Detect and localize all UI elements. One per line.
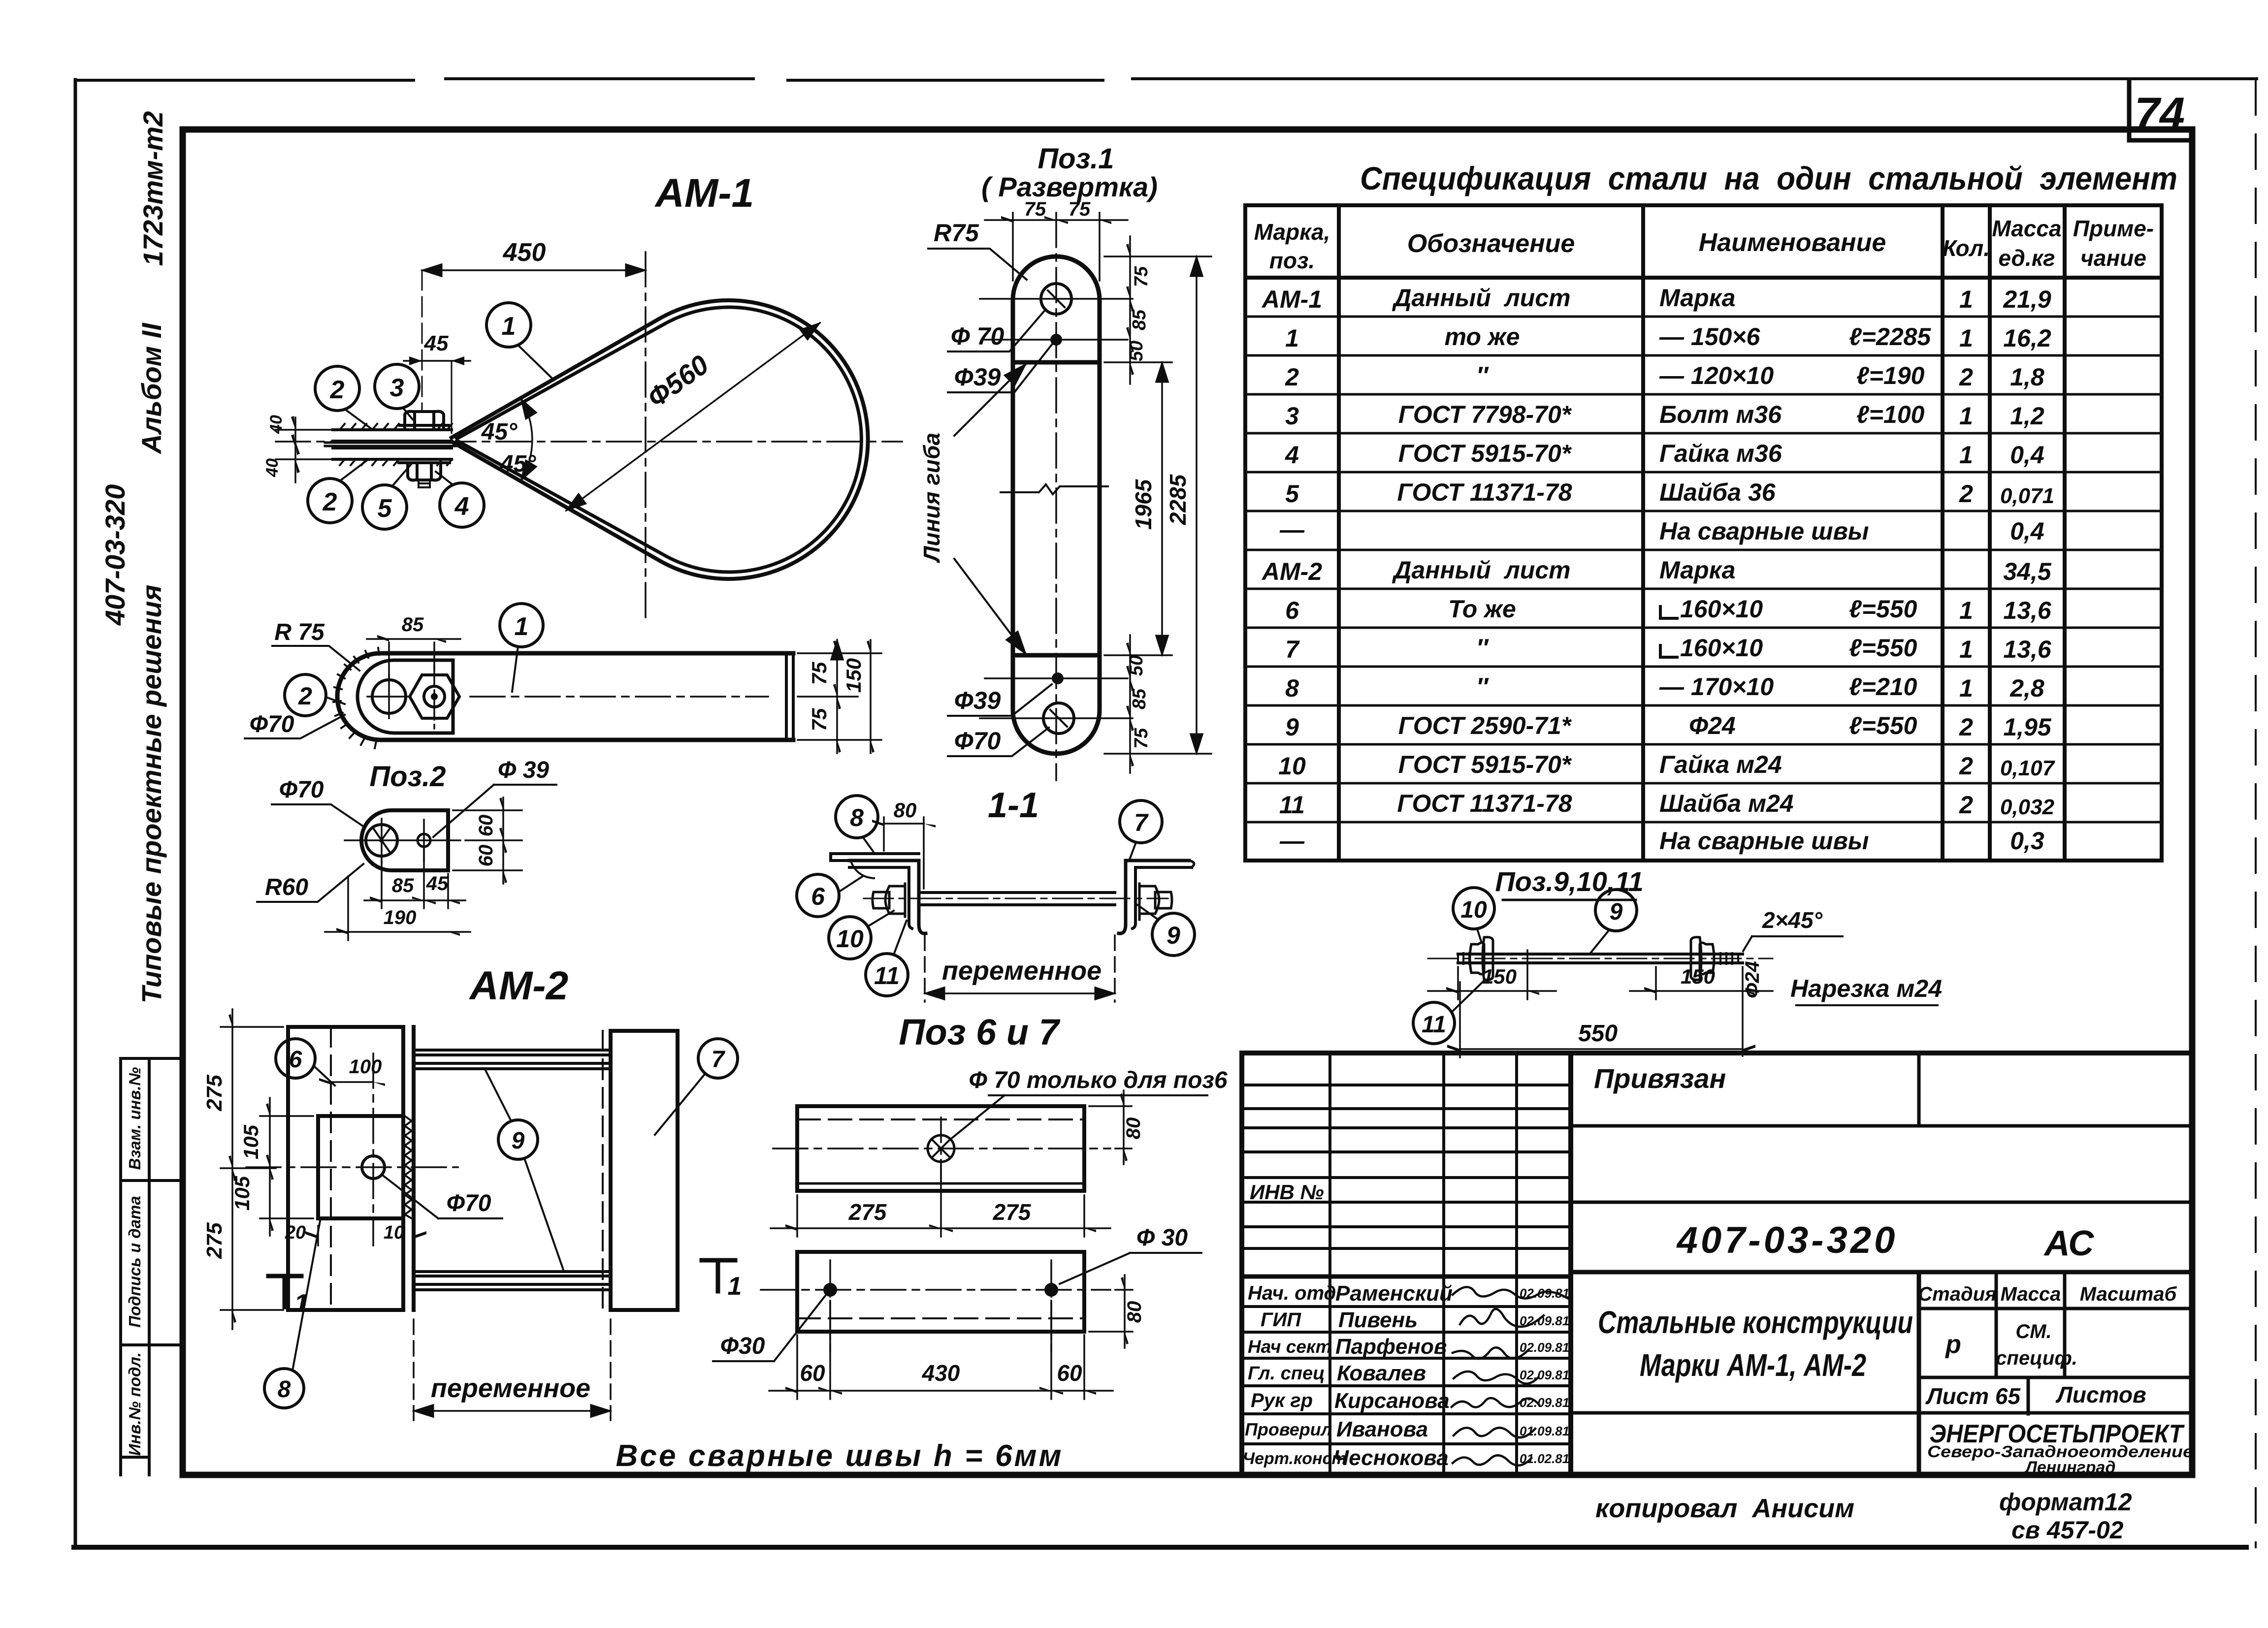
svg-text:20: 20 bbox=[285, 1222, 306, 1243]
sec11 balloon 6 bbox=[797, 874, 863, 917]
svg-text:R60: R60 bbox=[265, 874, 308, 900]
svg-text:7: 7 bbox=[1134, 809, 1149, 836]
poz1 vertical centerline bbox=[1055, 213, 1057, 780]
svg-text:02.09.81: 02.09.81 bbox=[1520, 1368, 1569, 1382]
svg-text:85: 85 bbox=[1129, 688, 1150, 709]
svg-text:Ф 70: Ф 70 bbox=[951, 322, 1004, 350]
AM-1 clamped strip ends bbox=[325, 443, 457, 446]
svg-text:″: ″ bbox=[1476, 362, 1489, 389]
svg-text:переменное: переменное bbox=[942, 956, 1102, 986]
title block signature table names bbox=[1333, 1281, 1453, 1470]
plan2 hole F30 right filled bbox=[1044, 1260, 1058, 1351]
svg-text:Лист 65: Лист 65 bbox=[1925, 1383, 2021, 1409]
AM-1 dim 40 lower bbox=[263, 434, 300, 478]
svg-text:6: 6 bbox=[289, 1047, 302, 1073]
svg-text:Приме-: Приме- bbox=[2073, 216, 2154, 241]
angle profile glyph row6 bbox=[1660, 607, 1677, 618]
poz2 weld pocket rectangle bbox=[357, 660, 453, 733]
title block signature table roles bbox=[1243, 1282, 1347, 1468]
poz2 welded nut hexagon bbox=[410, 675, 459, 718]
svg-text:1: 1 bbox=[728, 1272, 742, 1301]
title block left sub-table horizontals bbox=[1242, 1085, 1571, 1248]
plan1 dim 80 right bbox=[1089, 1090, 1144, 1164]
bracket dim 190 bbox=[325, 876, 470, 940]
bracket hole F39 bbox=[418, 820, 430, 862]
svg-text:Ф70: Ф70 bbox=[447, 1190, 491, 1216]
svg-text:150: 150 bbox=[1482, 965, 1517, 988]
AM-2 balloon 7 bbox=[655, 1039, 738, 1135]
svg-text:Взам. инв.№: Взам. инв.№ bbox=[126, 1067, 144, 1170]
poz1 label R75 bbox=[928, 219, 1027, 280]
svg-text:275: 275 bbox=[993, 1199, 1032, 1225]
AM-1 balloon 1 top bbox=[486, 303, 554, 380]
svg-text:Масштаб: Масштаб bbox=[2080, 1283, 2177, 1305]
svg-text:—: — bbox=[1279, 827, 1305, 855]
svg-text:Гайка м24: Гайка м24 bbox=[1659, 751, 1782, 778]
AM-2 dim 100 bbox=[319, 1056, 385, 1086]
svg-text:160×10: 160×10 bbox=[1680, 595, 1763, 623]
svg-text:11: 11 bbox=[874, 962, 900, 990]
AM-1 vertical centerline bbox=[645, 252, 647, 621]
svg-text:Ф30: Ф30 bbox=[720, 1333, 765, 1359]
svg-text:Стадия: Стадия bbox=[1918, 1283, 1996, 1305]
outer sheet border right bbox=[2255, 80, 2257, 1547]
svg-text:1723тм-т2: 1723тм-т2 bbox=[137, 111, 168, 266]
svg-text:Черт.конст: Черт.конст bbox=[1243, 1449, 1347, 1468]
left margin small table bbox=[121, 1058, 183, 1475]
svg-text:1: 1 bbox=[1959, 597, 1973, 624]
AM-2 top rails (angle edges) bbox=[414, 1050, 611, 1069]
AM-2 left plate hidden line bbox=[330, 1027, 332, 1310]
chamfer label 2x45 bbox=[1743, 907, 1843, 951]
svg-text:5: 5 bbox=[378, 494, 392, 523]
svg-text:Поз.9,10,11: Поз.9,10,11 bbox=[1495, 866, 1643, 897]
svg-text:85: 85 bbox=[392, 875, 414, 896]
svg-text:60: 60 bbox=[475, 815, 497, 837]
plan2 dims 60 430 60 bbox=[769, 1301, 1113, 1399]
poz1 label F70 bottom bbox=[948, 727, 1049, 756]
svg-text:СМ.: СМ. bbox=[2015, 1321, 2051, 1342]
sec11 balloon 7 bbox=[1120, 800, 1162, 860]
svg-text:1-1: 1-1 bbox=[988, 786, 1039, 825]
svg-text:275: 275 bbox=[848, 1199, 887, 1225]
AM-1 diameter 560 dimension diagonal bbox=[566, 323, 820, 511]
svg-text:160×10: 160×10 bbox=[1680, 634, 1763, 662]
svg-text:11: 11 bbox=[1422, 1012, 1446, 1038]
poz2 balloon 2 bbox=[285, 674, 345, 716]
svg-text:1: 1 bbox=[1959, 441, 1973, 469]
svg-text:Спецификация стали на один: Спецификация стали на один стальной элем… bbox=[1360, 160, 2177, 196]
bracket hole F70 bbox=[345, 819, 460, 862]
outer sheet border top bbox=[75, 79, 2257, 80]
title block signature dates bbox=[1520, 1286, 1569, 1466]
svg-text:Стальные конструкции: Стальные конструкции bbox=[1598, 1305, 1913, 1340]
svg-text:02.09.81: 02.09.81 bbox=[1520, 1340, 1569, 1355]
svg-text:Пивень: Пивень bbox=[1338, 1308, 1418, 1332]
svg-text:75: 75 bbox=[1024, 198, 1046, 220]
svg-text:ℓ=190: ℓ=190 bbox=[1856, 362, 1925, 389]
svg-text:16,2: 16,2 bbox=[2003, 324, 2051, 352]
svg-text:ℓ=550: ℓ=550 bbox=[1849, 634, 1917, 662]
AM-2 dim 275 275 left bbox=[202, 1009, 283, 1329]
svg-text:Болт м36: Болт м36 bbox=[1659, 401, 1782, 428]
svg-text:450: 450 bbox=[503, 238, 546, 267]
AM-1 45 deg angle arc bbox=[521, 399, 532, 480]
svg-text:Гл. спец: Гл. спец bbox=[1248, 1363, 1325, 1384]
svg-text:Инв.№ подл.: Инв.№ подл. bbox=[126, 1352, 144, 1456]
svg-text:Нач сект: Нач сект bbox=[1248, 1337, 1332, 1357]
svg-text:60: 60 bbox=[475, 845, 497, 867]
svg-text:8: 8 bbox=[1285, 674, 1299, 702]
bracket label F70 bbox=[272, 777, 364, 827]
svg-text:275: 275 bbox=[202, 1075, 227, 1112]
svg-text:Марка: Марка bbox=[1659, 284, 1735, 312]
angle profile glyph row7 bbox=[1660, 645, 1677, 657]
svg-text:Данный лист: Данный лист bbox=[1392, 556, 1570, 584]
svg-text:Парфенов: Парфенов bbox=[1335, 1335, 1447, 1359]
svg-text:( Развертка): ( Развертка) bbox=[981, 171, 1158, 202]
svg-text:ГИП: ГИП bbox=[1261, 1309, 1301, 1331]
svg-text:40: 40 bbox=[267, 415, 286, 434]
svg-text:105: 105 bbox=[230, 1176, 254, 1211]
AM-2 right block pos7 bbox=[611, 1031, 678, 1310]
AM-2 label F70 bbox=[383, 1176, 502, 1218]
svg-text:Привязан: Привязан bbox=[1594, 1063, 1726, 1094]
svg-text:формат12: формат12 bbox=[1999, 1488, 2132, 1516]
sec11 balloon 8 bbox=[836, 796, 878, 853]
svg-text:Ф70: Ф70 bbox=[279, 777, 324, 803]
inner drawing frame bbox=[183, 129, 2192, 1475]
svg-text:поз.: поз. bbox=[1269, 248, 1315, 273]
svg-text:02.09.81: 02.09.81 bbox=[1520, 1286, 1569, 1301]
svg-text:R75: R75 bbox=[934, 219, 979, 247]
svg-text:Проверил: Проверил bbox=[1245, 1419, 1332, 1439]
svg-text:Кирсанова: Кирсанова bbox=[1334, 1389, 1450, 1413]
plan2 label F30 lower left bbox=[713, 1296, 825, 1361]
AM-1 balloon 2 bottom bbox=[308, 459, 368, 523]
AM-2 dim 20 bbox=[285, 1222, 318, 1245]
svg-text:″: ″ bbox=[1476, 634, 1489, 662]
svg-text:34,5: 34,5 bbox=[2003, 558, 2052, 585]
svg-text:2: 2 bbox=[298, 682, 312, 710]
AM-2 balloon 6 bbox=[276, 1039, 335, 1085]
svg-text:Поз 6 и 7: Поз 6 и 7 bbox=[899, 1012, 1061, 1053]
svg-text:150: 150 bbox=[842, 658, 865, 693]
svg-text:1,2: 1,2 bbox=[2010, 402, 2044, 430]
svg-text:407-03-320: 407-03-320 bbox=[99, 484, 130, 626]
svg-text:80: 80 bbox=[1124, 1301, 1145, 1323]
svg-text:60: 60 bbox=[800, 1360, 825, 1386]
poz2 dim 85 top bbox=[367, 614, 460, 677]
sec11 left plate pos8 bbox=[831, 854, 919, 861]
svg-text:Наименование: Наименование bbox=[1699, 228, 1886, 257]
AM-2 dim 105 105 left bbox=[230, 1098, 313, 1236]
svg-text:специф.: специф. bbox=[1996, 1347, 2077, 1369]
svg-text:Ф 39: Ф 39 bbox=[498, 757, 550, 783]
svg-text:— 120×10: — 120×10 bbox=[1659, 362, 1774, 389]
specification table header texts bbox=[1254, 216, 2154, 273]
svg-text:9: 9 bbox=[1610, 899, 1623, 925]
svg-text:0,107: 0,107 bbox=[2000, 756, 2056, 780]
svg-text:75: 75 bbox=[1131, 728, 1152, 749]
poz1 bottom hole F39 filled bbox=[985, 672, 1128, 684]
poz2 balloon 1 bbox=[500, 604, 543, 692]
thread label M24 bbox=[1790, 975, 1942, 1005]
svg-text:Марка,: Марка, bbox=[1254, 219, 1330, 245]
svg-text:— 170×10: — 170×10 bbox=[1659, 673, 1774, 701]
plan1 label F70 only for poz6 bbox=[949, 1067, 1228, 1140]
svg-text:7: 7 bbox=[1285, 636, 1300, 663]
poz1 label F39 top bbox=[948, 345, 1052, 392]
plan2 hidden edge dashed bbox=[797, 1317, 1084, 1319]
svg-text:На сварные швы: На сварные швы bbox=[1659, 517, 1869, 545]
svg-text:2: 2 bbox=[1959, 752, 1973, 780]
sec11 balloon 11 bbox=[866, 921, 908, 996]
svg-text:9: 9 bbox=[1166, 922, 1180, 949]
svg-text:переменное: переменное bbox=[431, 1373, 590, 1403]
svg-text:копировал Анисим: копировал Анисим bbox=[1595, 1494, 1854, 1523]
svg-text:01.02.81: 01.02.81 bbox=[1520, 1451, 1569, 1466]
poz2 hole F70 bbox=[367, 675, 411, 718]
svg-text:85: 85 bbox=[402, 614, 424, 636]
sec11 balloon 9 bbox=[1137, 905, 1195, 956]
poz2 strip outline bbox=[337, 653, 793, 740]
svg-text:6: 6 bbox=[1285, 597, 1299, 624]
svg-text:ГОСТ 5915-70*: ГОСТ 5915-70* bbox=[1398, 440, 1572, 467]
outer sheet border left bbox=[74, 80, 77, 1547]
svg-text:4: 4 bbox=[454, 492, 469, 521]
svg-text:75: 75 bbox=[808, 662, 831, 685]
AM-1 dim 450 bbox=[422, 238, 646, 412]
svg-text:6: 6 bbox=[811, 883, 825, 910]
svg-text:ед.кг: ед.кг bbox=[1998, 245, 2055, 271]
svg-text:2: 2 bbox=[330, 376, 345, 404]
svg-text:Масса: Масса bbox=[2001, 1283, 2061, 1305]
poz2 nut vertical centerline bbox=[433, 666, 435, 729]
poz1 bottom hole F70 bbox=[980, 703, 1133, 734]
poz1 top dim 75 75 bbox=[985, 198, 1128, 281]
svg-text:Ф70: Ф70 bbox=[250, 711, 294, 737]
svg-text:75: 75 bbox=[808, 708, 831, 731]
svg-text:Ф24: Ф24 bbox=[1742, 961, 1763, 998]
svg-text:10: 10 bbox=[384, 1222, 404, 1243]
svg-text:275: 275 bbox=[202, 1222, 227, 1259]
svg-text:430: 430 bbox=[922, 1360, 960, 1386]
svg-text:2285: 2285 bbox=[1165, 474, 1191, 525]
bracket outline bbox=[361, 810, 448, 870]
poz2 strip right end double line bbox=[786, 653, 793, 740]
svg-text:1: 1 bbox=[1959, 636, 1973, 663]
outer sheet border bottom bbox=[74, 1545, 2246, 1550]
svg-text:Шайба м24: Шайба м24 bbox=[1659, 790, 1794, 817]
svg-text:ℓ=550: ℓ=550 bbox=[1849, 712, 1917, 739]
AM-1 bolt M36 head bbox=[400, 412, 449, 430]
svg-text:ℓ=550: ℓ=550 bbox=[1849, 595, 1917, 623]
svg-text:50: 50 bbox=[1126, 655, 1147, 676]
svg-text:АМ-2: АМ-2 bbox=[1261, 558, 1322, 585]
svg-text:80: 80 bbox=[894, 798, 917, 822]
svg-text:то же: то же bbox=[1445, 323, 1520, 351]
specification table column 1 entries bbox=[1261, 286, 1322, 855]
balloon 9 bbox=[1590, 890, 1637, 953]
svg-text:То же: То же bbox=[1448, 595, 1516, 623]
svg-text:10: 10 bbox=[836, 925, 864, 953]
svg-text:1: 1 bbox=[515, 612, 529, 641]
svg-text:01.09.81: 01.09.81 bbox=[1520, 1424, 1569, 1438]
svg-text:ГОСТ 5915-70*: ГОСТ 5915-70* bbox=[1398, 751, 1572, 778]
plan1 bend edge solid bbox=[797, 1182, 1084, 1185]
AM-1 balloon 2 top bbox=[315, 366, 373, 430]
svg-text:АМ-1: АМ-1 bbox=[654, 171, 754, 216]
svg-text:ℓ=100: ℓ=100 bbox=[1856, 401, 1925, 428]
title block left sub-table verticals bbox=[1330, 1053, 1517, 1475]
svg-text:Раменский: Раменский bbox=[1335, 1281, 1453, 1306]
svg-text:100: 100 bbox=[349, 1056, 382, 1078]
dim 550 bbox=[1447, 967, 1755, 1057]
AM-1 dim 40 upper bbox=[267, 415, 333, 482]
svg-text:Марка: Марка bbox=[1659, 556, 1735, 584]
svg-text:Поз.1: Поз.1 bbox=[1037, 143, 1114, 175]
svg-text:550: 550 bbox=[1578, 1021, 1618, 1047]
svg-text:Ф39: Ф39 bbox=[954, 363, 1001, 391]
rod left thread bbox=[1458, 953, 1469, 964]
rod right thread bbox=[1720, 953, 1738, 964]
specification table column 4 entries bbox=[1959, 286, 1973, 819]
svg-text:7: 7 bbox=[712, 1047, 726, 1073]
poz2 label R75 top bbox=[272, 619, 359, 670]
title block outline bbox=[1242, 1053, 2192, 1475]
right washer pos11 bbox=[1691, 937, 1701, 980]
poz1 strip outline bbox=[1013, 256, 1100, 754]
svg-text:4: 4 bbox=[1285, 441, 1299, 469]
poz1 bend line top bbox=[1013, 360, 1100, 365]
specification table column 3 entries bbox=[1659, 284, 1931, 855]
svg-text:2: 2 bbox=[323, 488, 337, 516]
svg-text:13,6: 13,6 bbox=[2003, 636, 2052, 663]
AM-1 loop strip outer contour bbox=[452, 300, 868, 579]
plan2 outline bbox=[797, 1252, 1084, 1332]
svg-text:Альбом II: Альбом II bbox=[136, 322, 167, 455]
AM-2 balloon 9 bbox=[485, 1069, 564, 1271]
AM-1 lower clamp plate pos2 bbox=[333, 448, 452, 465]
right nut pos10 bbox=[1700, 943, 1714, 974]
svg-text:1,95: 1,95 bbox=[2003, 713, 2052, 741]
svg-text:11: 11 bbox=[1279, 791, 1305, 819]
poz91011 caption bbox=[1495, 866, 1643, 900]
svg-text:0,071: 0,071 bbox=[2000, 484, 2054, 508]
poz1 top hole F39 filled bbox=[985, 334, 1128, 346]
svg-text:2×45°: 2×45° bbox=[1762, 907, 1823, 933]
svg-text:2: 2 bbox=[1959, 791, 1973, 819]
svg-text:Ф24: Ф24 bbox=[1689, 712, 1736, 739]
svg-text:Типовые проектные решения: Типовые проектные решения bbox=[136, 585, 167, 1004]
plan2 dim 80 right bbox=[1089, 1275, 1145, 1348]
plan1 hidden edge dashed bbox=[797, 1118, 1084, 1120]
left washer pos11 bbox=[1483, 937, 1493, 980]
AM-2 section mark 1 left bbox=[268, 1276, 308, 1318]
sheet number box bbox=[2129, 81, 2192, 140]
svg-text:0,4: 0,4 bbox=[2010, 517, 2044, 545]
poz1 break symbol bbox=[1001, 484, 1108, 499]
title block main divider bbox=[1568, 1053, 1573, 1475]
poz2 strip centerline bbox=[470, 696, 768, 698]
sec11 left nut and washer pos10 pos11 bbox=[873, 884, 909, 917]
bracket dims 60 60 right bbox=[453, 798, 522, 884]
title block stage mass scale header bbox=[1918, 1283, 2177, 1409]
poz2 weld hatch on round end bbox=[333, 648, 379, 748]
svg-text:9: 9 bbox=[512, 1128, 525, 1154]
svg-text:10: 10 bbox=[1460, 897, 1487, 923]
svg-text:св 457-02: св 457-02 bbox=[2011, 1516, 2124, 1544]
svg-text:45: 45 bbox=[426, 873, 449, 894]
sec11 right angle pos7 bbox=[1119, 861, 1194, 933]
svg-text:Ф70: Ф70 bbox=[954, 727, 1001, 755]
plan2 label F30 upper right bbox=[1060, 1225, 1201, 1284]
plan2 centerline bbox=[761, 1289, 1110, 1291]
title block top right cell bbox=[1571, 1053, 2192, 1126]
specification table column 2 entries bbox=[1392, 284, 1572, 817]
dim 150 right bbox=[1630, 965, 1773, 1056]
title block signature rows bbox=[1242, 1277, 1571, 1444]
poz2 label F70 left bbox=[245, 711, 345, 738]
svg-text:ИНВ №: ИНВ № bbox=[1250, 1181, 1324, 1204]
svg-text:45°: 45° bbox=[481, 419, 518, 445]
specification table grid bbox=[1245, 205, 2162, 861]
svg-text:150: 150 bbox=[1681, 965, 1715, 988]
AM-1 balloon 5 bbox=[362, 464, 411, 529]
svg-text:85: 85 bbox=[1129, 309, 1150, 330]
svg-text:ГОСТ 7798-70*: ГОСТ 7798-70* bbox=[1398, 401, 1572, 428]
svg-text:Линия гиба: Линия гиба bbox=[919, 433, 944, 563]
svg-text:45: 45 bbox=[424, 331, 449, 355]
svg-text:ГОСТ 2590-71*: ГОСТ 2590-71* bbox=[1398, 712, 1572, 739]
plan1 centerline bbox=[773, 1148, 1110, 1149]
svg-text:Ф560: Ф560 bbox=[642, 349, 714, 414]
svg-text:02.09.81: 02.09.81 bbox=[1520, 1313, 1569, 1328]
svg-text:Подпись и дата: Подпись и дата bbox=[126, 1196, 144, 1328]
AM-1 loop strip inner contour bbox=[457, 307, 861, 572]
svg-text:8: 8 bbox=[278, 1376, 291, 1403]
svg-text:Ф39: Ф39 bbox=[954, 687, 1001, 714]
svg-text:Поз.2: Поз.2 bbox=[369, 761, 446, 793]
svg-text:Ленинград: Ленинград bbox=[2024, 1458, 2116, 1477]
svg-text:1: 1 bbox=[294, 1289, 309, 1318]
AM-2 left plate outline bbox=[288, 1027, 403, 1310]
svg-text:ГОСТ 11371-78: ГОСТ 11371-78 bbox=[1397, 790, 1572, 817]
svg-text:21,9: 21,9 bbox=[2003, 286, 2051, 313]
svg-text:АМ-2: АМ-2 bbox=[469, 963, 568, 1008]
sec11 rod pos9 bbox=[864, 893, 1168, 905]
poz2 label F39 (to lower bracket hole) bbox=[433, 757, 556, 837]
svg-text:ГОСТ 11371-78: ГОСТ 11371-78 bbox=[1397, 479, 1572, 506]
sec11 dim peremennoe bbox=[925, 935, 1115, 1002]
AM-2 inner plate pos8 bbox=[318, 1116, 403, 1218]
sec11 left angle pos6 bbox=[849, 861, 926, 933]
svg-text:407-03-320: 407-03-320 bbox=[1676, 1219, 1898, 1261]
svg-text:1965: 1965 bbox=[1131, 479, 1156, 530]
svg-text:8: 8 bbox=[850, 804, 864, 831]
svg-text:ℓ=2285: ℓ=2285 bbox=[1849, 323, 1931, 351]
plan1 hole F70 bbox=[928, 1117, 954, 1181]
poz1 label F39 bottom bbox=[948, 684, 1052, 716]
svg-text:3: 3 bbox=[1285, 402, 1299, 430]
bracket label R60 bbox=[257, 864, 363, 902]
svg-text:02.09.81: 02.09.81 bbox=[1520, 1395, 1569, 1410]
svg-text:45°: 45° bbox=[500, 451, 536, 477]
sec11 dim 80 bbox=[872, 798, 936, 889]
svg-text:1: 1 bbox=[1959, 324, 1973, 352]
svg-text:Гайка м36: Гайка м36 bbox=[1659, 440, 1782, 467]
